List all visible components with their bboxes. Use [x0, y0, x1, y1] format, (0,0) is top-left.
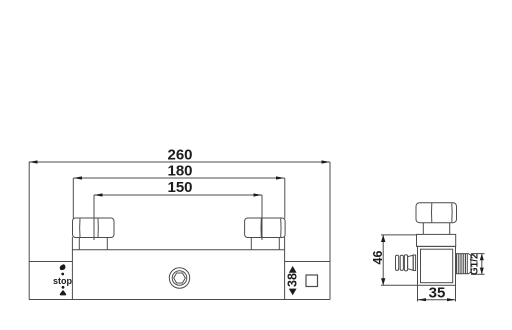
arrow 38 up	[289, 266, 297, 273]
left stop box top edge	[29, 261, 72, 263]
35 dim line	[418, 299, 456, 301]
nipple bar 1	[396, 255, 399, 270]
dot upper	[61, 273, 64, 276]
extension line right 260 / right box right edge	[329, 162, 331, 300]
arrow 180 left	[74, 176, 83, 179]
arrow 150 left	[94, 193, 103, 196]
center cap outer circle	[169, 268, 189, 288]
46 dim line	[382, 235, 384, 285]
arrow G1/2 down	[480, 268, 484, 275]
right box top edge	[284, 261, 330, 263]
extension line left 260 / left box left edge	[28, 162, 30, 300]
arrow 46 down	[381, 278, 385, 285]
arrow 46 up	[381, 235, 385, 242]
svg-text:260: 260	[167, 147, 192, 164]
extension line left 180	[72, 178, 74, 219]
svg-text:stop: stop	[53, 276, 73, 286]
left hex nut	[73, 218, 115, 238]
arrow 150 right	[254, 193, 263, 196]
body left edge / stop box divider	[71, 237, 73, 300]
extension line right 150 through nut	[261, 195, 263, 240]
flange rect	[417, 234, 456, 246]
dot lower	[62, 286, 65, 289]
35 extension right	[455, 285, 457, 301]
38 annotation group	[286, 266, 300, 295]
arrow 260 right	[322, 160, 331, 163]
nipple end bar	[413, 255, 415, 271]
svg-text:46: 46	[371, 251, 385, 265]
thread lines	[458, 254, 467, 274]
hot comma icon	[60, 264, 66, 270]
arrow 260 left	[29, 160, 38, 163]
arrow G1/2 up	[480, 254, 484, 261]
left nut neck	[78, 238, 80, 250]
inner square	[421, 249, 453, 283]
dim 180 line	[74, 177, 285, 179]
G1/2 extension top	[471, 253, 485, 255]
thread outline	[457, 254, 471, 274]
extension line right 180	[284, 178, 286, 219]
side view dim arrows	[381, 235, 484, 301]
extension line left 150 through nut	[93, 195, 95, 240]
right nut neck	[250, 238, 252, 250]
nipple cone	[408, 255, 414, 270]
center cap hex socket	[174, 273, 186, 283]
46 extension bottom	[381, 284, 418, 286]
arrow 35 right	[447, 298, 456, 301]
arrow 35 left	[418, 298, 427, 301]
dim arrows front view	[29, 160, 330, 196]
svg-text:38: 38	[286, 273, 300, 287]
body top edge	[72, 249, 284, 251]
outer square body	[418, 246, 456, 285]
svg-text:150: 150	[167, 179, 192, 196]
cold drop icon	[60, 290, 66, 295]
35 extension left	[417, 285, 419, 301]
svg-text:35: 35	[429, 285, 446, 302]
svg-text:G1/2: G1/2	[469, 253, 480, 275]
side nut neck	[422, 223, 424, 235]
nipple bar 2	[400, 255, 403, 270]
body bottom edge	[29, 299, 330, 301]
side hex nut	[416, 203, 457, 223]
dim 150 line	[94, 194, 262, 196]
G1/2 dim line	[481, 254, 483, 275]
right hex nut	[245, 218, 286, 238]
G1/2 extension bottom	[471, 273, 485, 275]
dim 260 line	[29, 161, 330, 163]
body right edge / right box divider	[284, 237, 286, 300]
nipple bar 3	[404, 255, 407, 271]
small square on right box	[306, 275, 318, 287]
arrow 38 down	[289, 289, 297, 296]
stop marking group	[53, 264, 73, 295]
svg-text:180: 180	[167, 163, 192, 180]
46 extension top	[381, 234, 417, 236]
center cap middle circle	[172, 271, 187, 286]
arrow 180 right	[276, 176, 285, 179]
